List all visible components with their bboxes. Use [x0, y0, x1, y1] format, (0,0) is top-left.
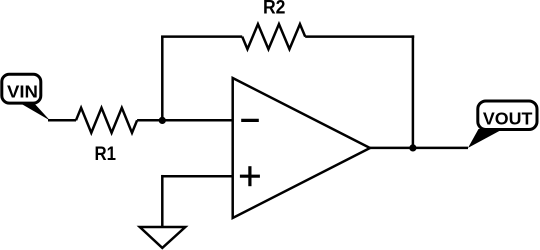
VOUT flag box	[478, 101, 537, 130]
wire feedback vertical right	[412, 35, 415, 148]
node B (output junction)	[409, 144, 416, 151]
plus sign (non-inverting input)	[240, 175, 260, 178]
resistor R1	[76, 108, 137, 133]
op-amp U1	[233, 78, 370, 218]
VOUT flag tail	[468, 129, 503, 148]
minus sign (inverting input)	[241, 119, 259, 122]
svg-text:VOUT: VOUT	[483, 109, 533, 129]
svg-text:R1: R1	[94, 144, 116, 165]
wire R1 to inverting input	[137, 119, 233, 122]
wire non-inverting input vertical to ground	[161, 175, 164, 227]
wire feedback top right	[305, 35, 414, 38]
VIN flag tail	[19, 103, 50, 121]
wire VIN to R1	[48, 119, 76, 122]
wire feedback top left	[161, 35, 242, 38]
node A (junction R1/R2/op-amp)	[159, 117, 166, 124]
VIN flag box	[2, 74, 41, 103]
svg-text:R2: R2	[263, 0, 286, 19]
svg-text:VIN: VIN	[7, 82, 38, 102]
wire op-amp output	[370, 147, 468, 150]
wire feedback vertical left	[161, 37, 164, 121]
resistor R2	[242, 24, 305, 49]
wire non-inverting input horizontal	[162, 175, 232, 178]
ground	[140, 227, 186, 248]
